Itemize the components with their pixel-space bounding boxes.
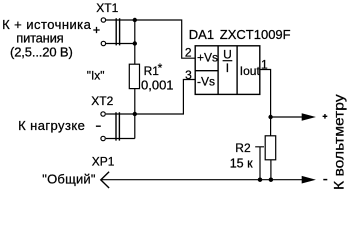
svg-text:XP1: XP1 (92, 155, 115, 169)
svg-text:К вольтметру: К вольтметру (332, 94, 347, 190)
svg-text:I: I (226, 61, 229, 75)
svg-text:"Общий": "Общий" (42, 171, 96, 186)
svg-text:*: * (158, 61, 163, 75)
svg-text:DA1: DA1 (189, 27, 214, 42)
svg-text:XT2: XT2 (91, 94, 113, 108)
svg-text:(2,5...20 В): (2,5...20 В) (10, 44, 73, 59)
svg-text:ZXCT1009F: ZXCT1009F (220, 27, 291, 42)
svg-text:U: U (223, 48, 232, 62)
svg-text:+Vs: +Vs (197, 51, 218, 65)
svg-text:2: 2 (185, 46, 192, 60)
svg-text:XT1: XT1 (96, 1, 118, 15)
svg-text:0,001: 0,001 (141, 78, 174, 93)
svg-text:-Vs: -Vs (197, 75, 215, 89)
svg-text:3: 3 (185, 68, 192, 82)
svg-text:"Ix": "Ix" (87, 69, 105, 83)
svg-text:Iout: Iout (240, 64, 261, 78)
svg-text:1: 1 (261, 58, 268, 72)
svg-text:15 к: 15 к (230, 156, 253, 170)
svg-text:К нагрузке: К нагрузке (18, 118, 85, 133)
svg-text:R2: R2 (235, 141, 251, 155)
svg-text:питания: питания (16, 30, 63, 45)
